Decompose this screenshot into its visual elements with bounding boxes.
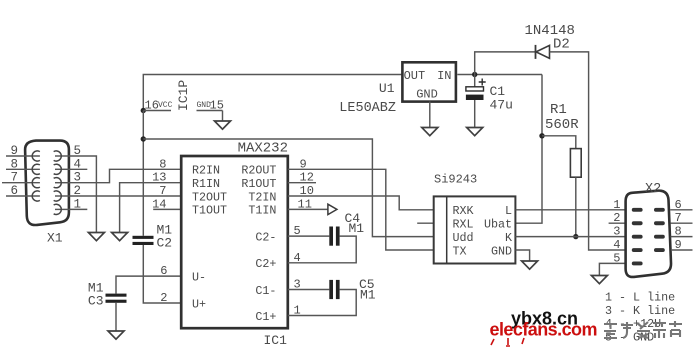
ground (IC1 pin13): [112, 233, 128, 241]
X1 pin 8: [6, 157, 40, 174]
wire X1 pin4 stub: [69, 168, 87, 170]
wire node to Ubat: [515, 75, 542, 224]
svg-text:IC1P: IC1P: [176, 80, 191, 111]
X1 pin 2: [54, 184, 81, 201]
ground (Si9243): [522, 261, 538, 269]
capacitor C4 loop pin5 to pin4: [288, 211, 365, 263]
node R1 bottom on K line: [573, 234, 578, 239]
svg-text:GND: GND: [491, 244, 512, 258]
MAX232 pin names right column: [241, 164, 276, 324]
wire IC1 pin14 stub: [153, 208, 181, 210]
svg-text:13: 13: [152, 171, 166, 185]
wire C2 to IC1 V+: [143, 245, 181, 303]
watermark red marks: [491, 338, 524, 346]
svg-text:U-: U-: [192, 270, 206, 284]
svg-text:1 - L line: 1 - L line: [605, 291, 675, 305]
resistor R1 560R: [542, 102, 581, 237]
svg-text:C1-: C1-: [255, 284, 276, 298]
svg-text:5: 5: [613, 251, 620, 265]
wire IC1 pin13 to ground: [120, 183, 182, 233]
svg-text:VCC: VCC: [158, 101, 173, 110]
svg-text:MAX232: MAX232: [238, 141, 288, 157]
svg-text:Ubat: Ubat: [484, 218, 512, 232]
svg-text:M1: M1: [360, 288, 376, 303]
node rail2 junction: [141, 136, 146, 141]
capacitor C5 loop pin3 to pin1: [288, 277, 376, 316]
IC Si9243 box: [434, 173, 516, 264]
svg-text:OUT: OUT: [404, 69, 426, 83]
wire X1 pin2 to IC1 T2OUT: [69, 195, 181, 197]
svg-text:C2+: C2+: [255, 257, 276, 271]
svg-text:R1IN: R1IN: [192, 177, 220, 191]
svg-text:8: 8: [10, 157, 18, 171]
node R1 tap junction: [539, 133, 544, 138]
wire Si9243 L to X2 pin1: [515, 209, 626, 211]
wire IC1 pin10 T2IN to Si9243 RXK: [288, 196, 434, 210]
wire X1 pin1 stub: [69, 208, 87, 210]
svg-text:47u: 47u: [490, 98, 513, 113]
X1 pin 3: [54, 171, 81, 188]
X1 pin 7: [2, 171, 40, 188]
svg-text:K: K: [505, 231, 512, 245]
svg-text:4: 4: [613, 238, 620, 252]
svg-text:RXK: RXK: [453, 204, 474, 218]
wire Si9243 K to X2 pin3: [515, 236, 626, 238]
svg-text:7: 7: [159, 184, 166, 198]
ground (X2 pin5): [591, 276, 607, 284]
wire diode to X2 pin4 (+12V): [550, 52, 626, 250]
svg-text:T1OUT: T1OUT: [192, 204, 227, 218]
IC MAX232 box: [181, 141, 288, 349]
wire rail2 to Si9243 Udd: [143, 139, 433, 237]
svg-text:8: 8: [159, 157, 166, 171]
ground (C1): [467, 128, 483, 136]
svg-text:6: 6: [160, 264, 167, 278]
svg-text:C2-: C2-: [255, 230, 276, 244]
X2 pin numbers right: [675, 198, 682, 252]
svg-text:LE50ABZ: LE50ABZ: [339, 101, 396, 116]
svg-text:elecfans.com: elecfans.com: [490, 320, 597, 340]
watermark chinese characters: [604, 321, 682, 338]
svg-text:X1: X1: [47, 231, 63, 246]
svg-text:X2: X2: [645, 182, 661, 197]
diode D2 1N4148: [525, 23, 575, 59]
svg-text:C2: C2: [157, 236, 173, 251]
wire VCC rail: [143, 75, 402, 111]
wire X1 pin3 to IC1 R2IN: [69, 169, 181, 182]
X1 pin 1: [54, 197, 81, 214]
connector X1 body: [25, 141, 69, 246]
wire U1 IN to node: [457, 74, 542, 76]
svg-text:D2: D2: [553, 37, 570, 53]
svg-text:7: 7: [10, 171, 18, 185]
X1 pin 5: [54, 144, 81, 161]
svg-text:M1: M1: [349, 221, 365, 236]
svg-text:9: 9: [10, 144, 18, 158]
svg-text:14: 14: [152, 197, 166, 211]
svg-text:R2IN: R2IN: [192, 164, 220, 178]
svg-text:T1IN: T1IN: [248, 204, 276, 218]
ground (C3): [108, 331, 124, 339]
svg-text:1: 1: [613, 198, 620, 212]
svg-text:R1OUT: R1OUT: [241, 177, 276, 191]
wire node up and to diode: [475, 52, 536, 75]
X1 pin 9: [6, 144, 40, 161]
X2 pin pads right column: [654, 208, 665, 252]
svg-text:U+: U+: [192, 297, 206, 311]
X2 pin pads left column: [632, 208, 643, 266]
wire X1 pin5 to ground: [69, 156, 97, 233]
wire RXL stub: [417, 222, 434, 224]
X2 pin numbers left: [613, 198, 620, 266]
capacitor C1 polarized: [466, 75, 513, 128]
svg-text:Si9243: Si9243: [434, 173, 477, 187]
svg-text:560R: 560R: [545, 117, 579, 133]
wire X2 pin5 to ground: [599, 263, 626, 275]
svg-text:L: L: [505, 204, 512, 218]
svg-text:2: 2: [613, 211, 620, 225]
wire IC1 V- to C3: [116, 276, 181, 294]
svg-text:RXL: RXL: [453, 218, 474, 232]
wire IC1 pin11 stub with arrow: [288, 204, 337, 214]
wire IC1 pin9 R2OUT to Si9243 TX: [288, 169, 434, 250]
svg-text:15: 15: [210, 99, 224, 113]
wire IC1 pin12 stub: [288, 182, 316, 184]
svg-text:GND: GND: [416, 88, 438, 102]
pin 15 GND stub of IC1P: [197, 99, 224, 122]
connector X2 body: [626, 182, 671, 277]
ground (X1 pin5): [88, 233, 104, 241]
svg-text:T2IN: T2IN: [248, 190, 276, 204]
node VCC pin16 junction: [141, 108, 146, 113]
wire C3 to ground: [115, 303, 117, 331]
svg-text:R2OUT: R2OUT: [241, 164, 276, 178]
ground (U1): [422, 128, 438, 136]
svg-text:T2OUT: T2OUT: [192, 190, 227, 204]
MAX232 pin names left column: [192, 164, 227, 312]
wire Si9243 GND to ground: [515, 250, 529, 261]
svg-text:2: 2: [160, 291, 167, 305]
MAX232 pin numbers right: [294, 157, 314, 317]
X1 pin 6: [6, 184, 40, 201]
svg-text:3: 3: [613, 225, 620, 239]
svg-text:U1: U1: [379, 81, 395, 96]
X1 pin 4: [54, 157, 81, 174]
capacitor C2: [133, 223, 173, 251]
svg-text:3 - K line: 3 - K line: [605, 304, 675, 318]
MAX232 pin numbers left: [152, 157, 167, 305]
svg-text:6: 6: [10, 184, 18, 198]
wire X2 pin2 stub: [609, 222, 626, 224]
svg-text:R1: R1: [550, 102, 567, 118]
svg-text:16: 16: [145, 99, 159, 113]
capacitor C3: [88, 281, 127, 309]
ground (IC1P pin15): [215, 121, 231, 129]
X2 right stubs pins 6-9: [670, 210, 692, 250]
wire vertical VCC down to rail2 and C2: [142, 111, 144, 236]
svg-text:C3: C3: [88, 294, 104, 309]
svg-text:IN: IN: [437, 69, 451, 83]
pin 16 VCC stub of IC1P: [143, 99, 172, 113]
node C1/diode junction: [472, 72, 477, 77]
svg-text:IC1: IC1: [264, 333, 288, 348]
legend text: [605, 291, 675, 345]
svg-text:TX: TX: [453, 244, 467, 258]
svg-text:C1+: C1+: [255, 310, 276, 324]
svg-text:Udd: Udd: [453, 231, 474, 245]
wire U1 GND to ground: [429, 101, 431, 127]
voltage regulator U1 LE50ABZ: [339, 62, 456, 116]
